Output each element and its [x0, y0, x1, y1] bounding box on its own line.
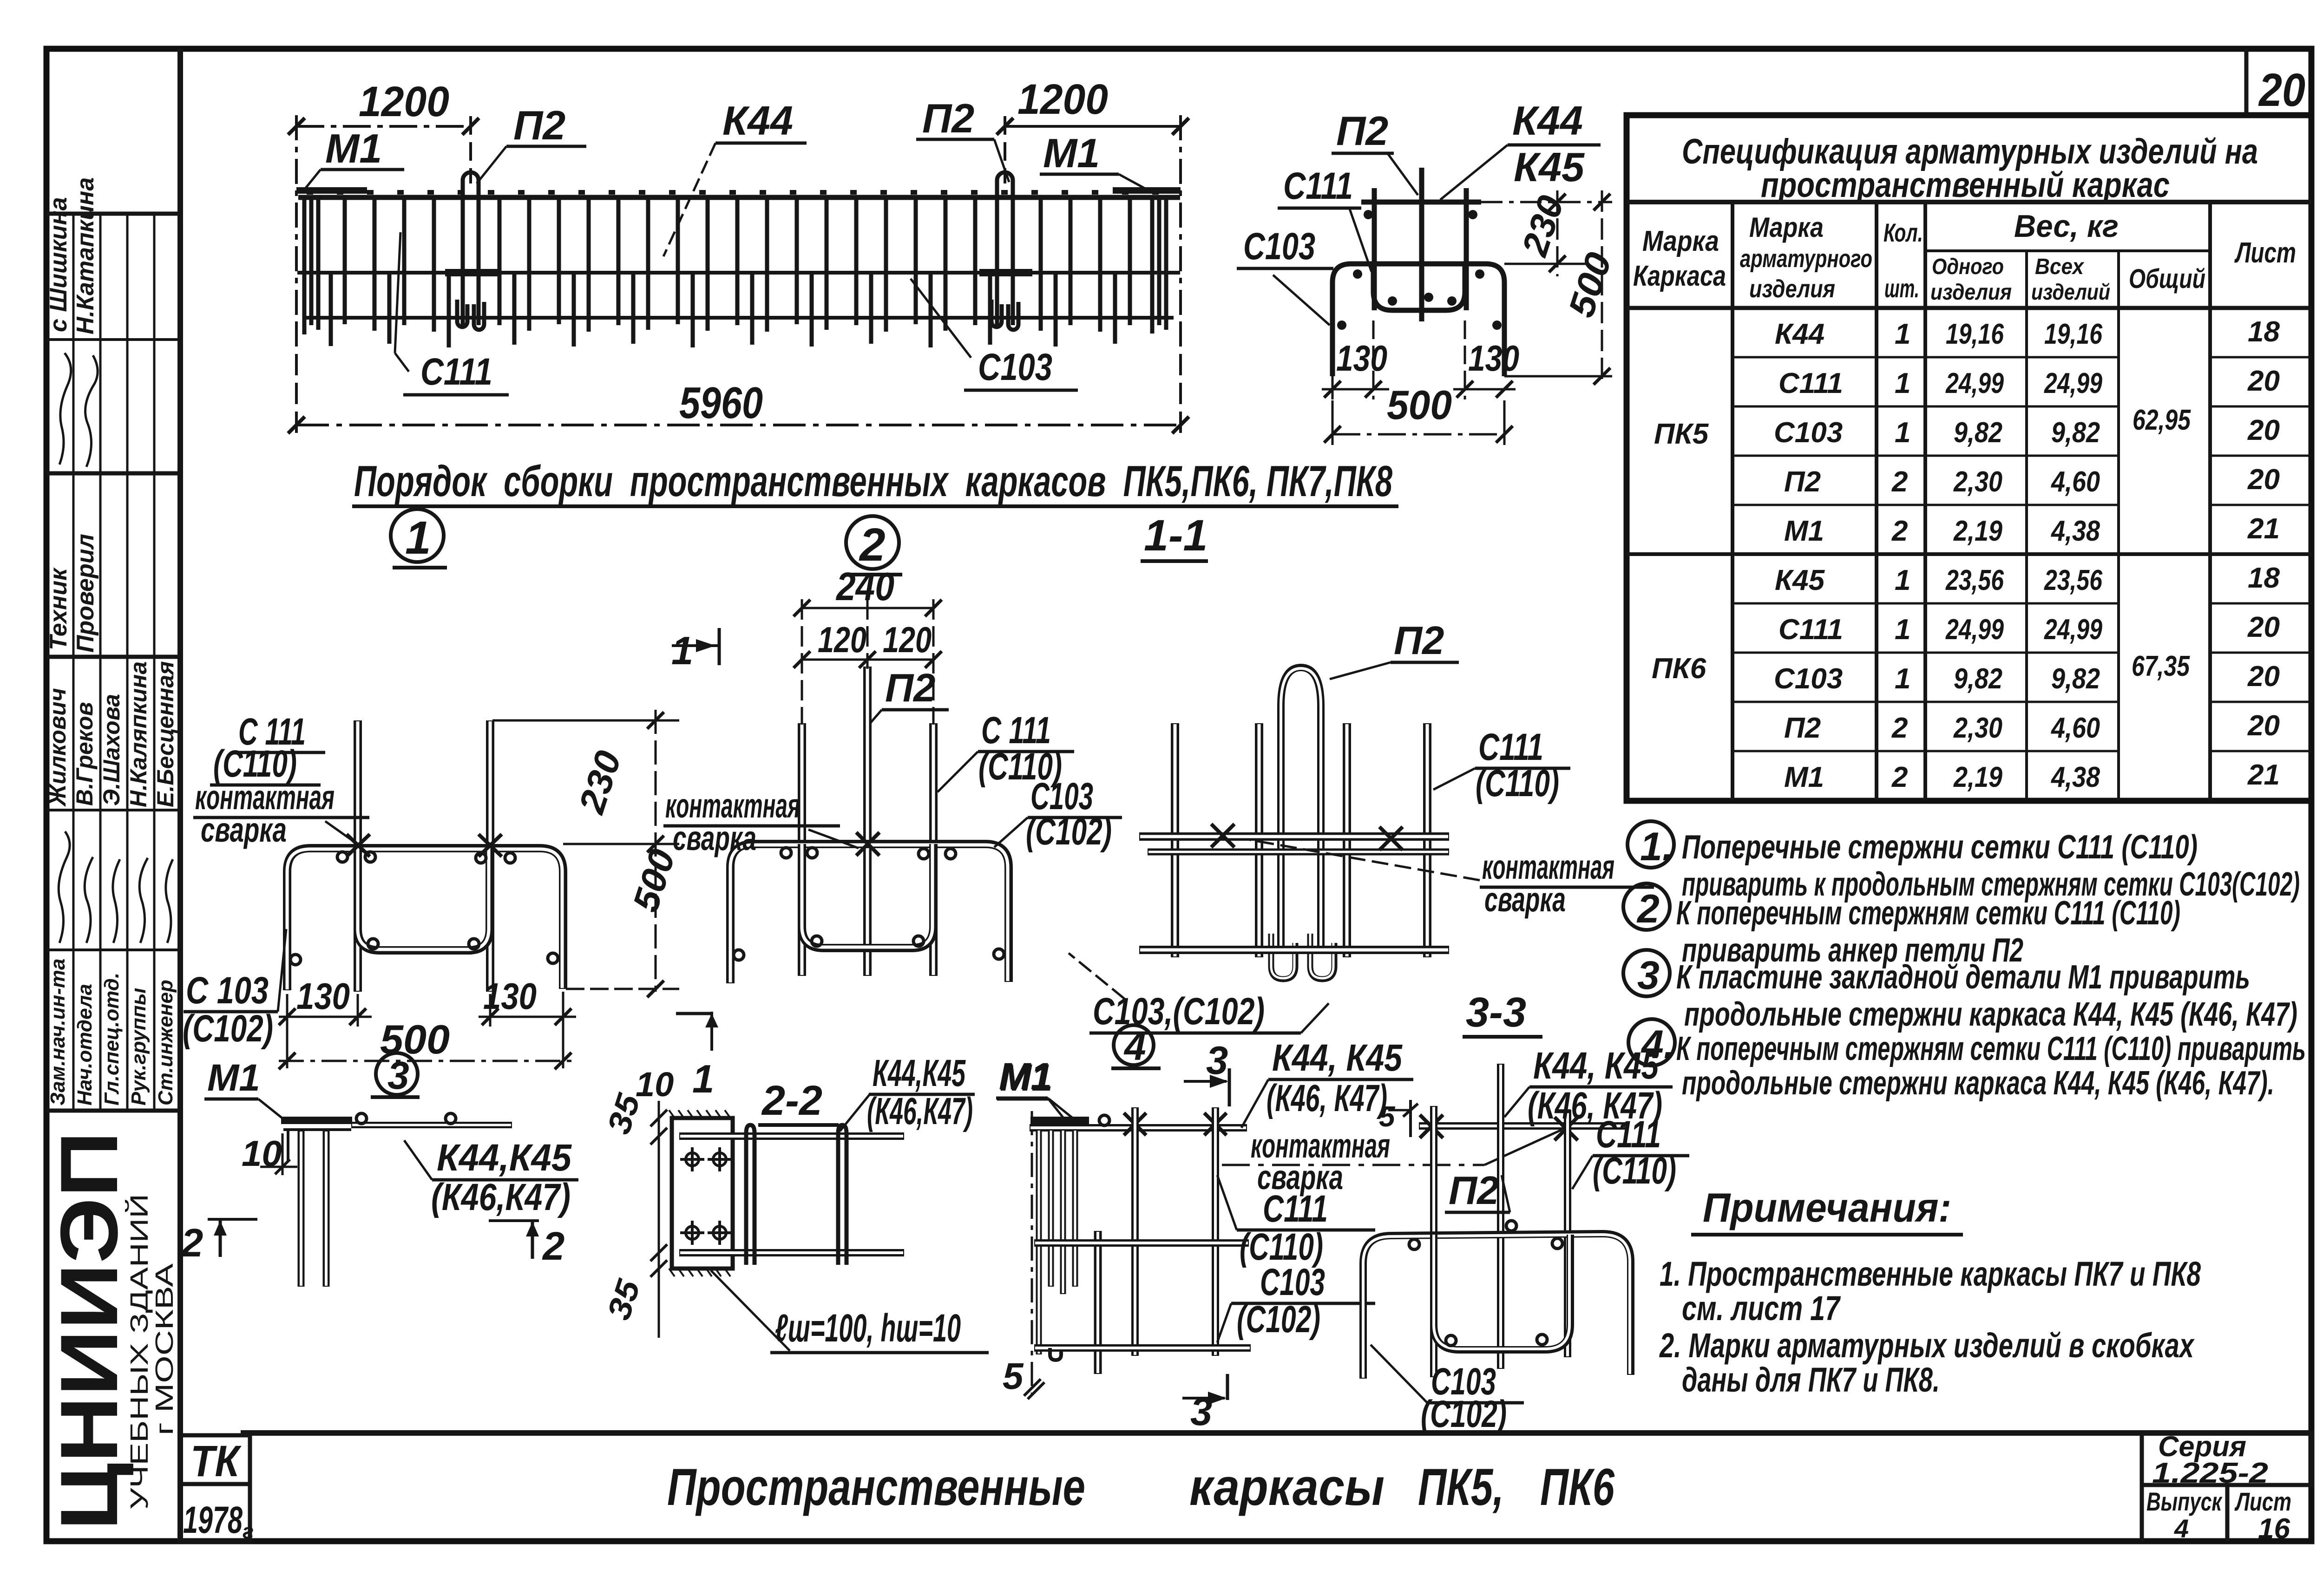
svg-text:19,16: 19,16: [2044, 318, 2102, 350]
svg-text:К45: К45: [1775, 564, 1825, 596]
beam dim 1200 right: [997, 76, 1189, 325]
svg-text:К44,К45: К44,К45: [437, 1137, 572, 1179]
svg-text:ТК: ТК: [190, 1437, 242, 1486]
svg-text:19,16: 19,16: [1946, 318, 2004, 350]
step1: weld X marks: [347, 834, 502, 857]
left strip signatures row 2: [59, 831, 173, 943]
svg-text:П2: П2: [885, 666, 935, 710]
view3: long vertical bars: [1135, 1107, 1215, 1356]
step2: label C103 (C102): [994, 775, 1122, 853]
beam label K44: [663, 98, 807, 256]
svg-text:К поперечным стержням сетки: К поперечным стержням сетки С111 (С110) …: [1676, 1030, 2306, 1067]
m1 detail: label M1: [204, 1057, 286, 1121]
beam label C111: [395, 232, 509, 395]
svg-text:Жилкович: Жилкович: [45, 688, 71, 807]
svg-text:ℓш=100, hш=10: ℓш=100, hш=10: [775, 1306, 961, 1350]
svg-text:Н.Каляпкина: Н.Каляпкина: [125, 661, 151, 807]
svg-text:С103: С103: [1243, 225, 1315, 268]
svg-text:М1: М1: [1043, 130, 1100, 176]
svg-text:(К46,К47): (К46,К47): [867, 1090, 973, 1132]
step2: side C111 bars + P2 rod: [802, 667, 933, 976]
svg-text:2: 2: [542, 1224, 564, 1269]
svg-text:ЦНИИЭП: ЦНИИЭП: [44, 1131, 135, 1531]
svg-text:1-1: 1-1: [1144, 511, 1207, 560]
svg-text:Марка: Марка: [1642, 225, 1719, 257]
svg-text:Примечания:: Примечания:: [1703, 1184, 1951, 1230]
svg-text:20: 20: [2258, 64, 2305, 116]
2-2 label K44,K45 (K46,K47): [840, 1052, 975, 1132]
svg-text:К44,К45: К44,К45: [873, 1052, 966, 1094]
svg-text:130: 130: [1336, 338, 1387, 379]
svg-text:П2: П2: [1336, 108, 1388, 154]
view3: axis dash line: [1031, 1111, 1033, 1393]
3-3: C111 verticals: [1434, 1106, 1568, 1377]
svg-text:ПК6: ПК6: [1652, 653, 1706, 685]
svg-text:(С102): (С102): [1237, 1298, 1320, 1341]
svg-text:С111: С111: [1283, 165, 1353, 207]
svg-text:23,56: 23,56: [1945, 564, 2004, 596]
svg-text:20: 20: [2247, 661, 2280, 693]
svg-text:4,38: 4,38: [2050, 515, 2100, 547]
svg-text:(С102): (С102): [1026, 811, 1112, 853]
svg-text:120: 120: [883, 619, 932, 660]
svg-text:Зам.нач.ин-та: Зам.нач.ин-та: [46, 959, 69, 1105]
svg-text:ПК6: ПК6: [1540, 1458, 1615, 1516]
svg-text:130: 130: [296, 975, 350, 1017]
beam label C103: [911, 279, 1078, 390]
view3: top plate + bar: [1030, 1115, 1247, 1128]
m1 detail: label K44,K45 (K46,K47): [404, 1137, 578, 1218]
svg-text:Рук.группы: Рук.группы: [127, 988, 150, 1105]
beam vertical bars C111 mesh: [304, 195, 1166, 334]
step4: horizontal bars: [1139, 837, 1449, 950]
step1: C103 mesh outer: [287, 848, 563, 990]
svg-text:продольные стержни каркаса: продольные стержни каркаса К44, К45 (К46…: [1684, 996, 2297, 1033]
svg-text:3: 3: [387, 1053, 409, 1097]
svg-text:2. Марки арматурных изделий: 2. Марки арматурных изделий в скобках: [1659, 1326, 2195, 1365]
svg-text:С111: С111: [420, 351, 492, 393]
svg-text:16: 16: [2258, 1513, 2290, 1545]
step4: label P2: [1330, 619, 1459, 679]
beam dim 5960: [288, 325, 1189, 437]
svg-text:С103: С103: [1774, 663, 1843, 695]
2-2: plate: [669, 1110, 733, 1276]
svg-text:Общий: Общий: [2129, 264, 2205, 294]
svg-text:Лист: Лист: [2234, 1487, 2291, 1516]
svg-text:(К46, К47): (К46, К47): [1266, 1077, 1387, 1119]
svg-text:4.: 4.: [1641, 1022, 1675, 1067]
svg-text:М1: М1: [325, 125, 382, 171]
step1: wire dots: [290, 852, 558, 965]
svg-text:20: 20: [2247, 611, 2280, 643]
svg-text:сварка: сварка: [1484, 880, 1566, 919]
svg-text:1.225-2: 1.225-2: [2152, 1457, 2268, 1489]
view3: section marker 3 bottom: [1182, 1374, 1227, 1434]
svg-text:(С110): (С110): [1593, 1150, 1676, 1192]
svg-text:1200: 1200: [359, 78, 449, 125]
step2: C103 inner tub: [802, 844, 933, 948]
beam label M1 left: [303, 125, 404, 191]
section marker 1 (bottom): [676, 1012, 718, 1101]
left title block strip: [46, 49, 180, 1541]
svg-text:П2: П2: [1784, 712, 1821, 744]
1-1: C103 tub: [1332, 264, 1504, 376]
svg-text:Э.Шахова: Э.Шахова: [98, 694, 125, 806]
svg-text:С103: С103: [978, 346, 1052, 388]
1-1: P2 rod: [1419, 168, 1424, 321]
beam M1 end plates: [296, 187, 1181, 194]
2-2 header: [758, 1078, 839, 1125]
svg-text:Поперечные стержни сетки С1: Поперечные стержни сетки С111 (С110): [1682, 829, 2198, 866]
view3: mid and bottom horizontals: [1034, 1243, 1251, 1360]
svg-text:С103: С103: [1774, 417, 1843, 449]
svg-text:С103: С103: [1260, 1261, 1325, 1303]
svg-text:ПК5: ПК5: [1654, 418, 1709, 450]
svg-text:ПК5,: ПК5,: [1418, 1458, 1504, 1516]
beam label M1 right: [1040, 130, 1150, 191]
svg-text:1: 1: [1895, 614, 1910, 646]
svg-text:4: 4: [2174, 1514, 2189, 1543]
svg-text:К44: К44: [1775, 318, 1824, 350]
svg-text:2: 2: [1891, 466, 1908, 498]
1-1: dim 500 bottom: [1324, 382, 1513, 445]
svg-text:18: 18: [2248, 562, 2280, 594]
beam P2 loop right: [979, 172, 1032, 330]
svg-text:1200: 1200: [1017, 76, 1108, 123]
TK / 1978 box: [180, 1435, 254, 1543]
step4: vertical C111 bars: [1175, 723, 1427, 957]
svg-text:шт.: шт.: [1884, 274, 1919, 303]
3-3: label K44,K45 (K46,K47) top right: [1504, 1045, 1673, 1127]
svg-text:П2: П2: [1784, 466, 1821, 498]
section marker 1 (top): [671, 628, 719, 673]
svg-text:К44: К44: [722, 98, 793, 144]
header 1-1: [1141, 511, 1208, 561]
beam lower mesh C103 short bars: [331, 274, 1115, 347]
svg-text:2: 2: [1891, 515, 1908, 547]
step2: label P2: [870, 666, 949, 724]
label K44,K45 (K46,K47) for view3: [1241, 1037, 1413, 1128]
beam label P2 right: [916, 95, 1009, 182]
svg-text:21: 21: [2247, 759, 2280, 791]
step1: bottom dims 130 130 500: [279, 975, 576, 1069]
step4: P2 hairpin: [1271, 667, 1334, 979]
svg-text:20: 20: [2247, 414, 2280, 446]
svg-text:К44, К45: К44, К45: [1533, 1045, 1659, 1087]
svg-text:сварка: сварка: [201, 811, 287, 849]
svg-text:К45: К45: [1514, 144, 1585, 190]
left strip signatures (second section): [59, 353, 98, 467]
1-1: dims 130 130: [1322, 321, 1519, 399]
svg-text:К44, К45: К44, К45: [1272, 1037, 1403, 1079]
m1 detail: section marks 2: [180, 1218, 564, 1269]
step4: label C111 (C110): [1433, 726, 1570, 805]
1-1: dim 230: [1481, 190, 1612, 276]
svg-text:4,60: 4,60: [2050, 712, 2100, 744]
svg-text:Кол.: Кол.: [1883, 218, 1923, 247]
svg-text:(С102): (С102): [1421, 1393, 1507, 1435]
svg-text:П2: П2: [513, 102, 565, 148]
svg-text:Всех: Всех: [2035, 255, 2085, 279]
svg-text:24,99: 24,99: [2044, 367, 2102, 399]
svg-text:продольные стержни каркаса: продольные стержни каркаса К44, К45 (К46…: [1682, 1065, 2274, 1102]
series / sheet boxes: [2142, 1431, 2311, 1545]
svg-text:сварка: сварка: [673, 819, 756, 857]
svg-text:9,82: 9,82: [2051, 417, 2100, 449]
3-3: label P2: [1445, 1169, 1510, 1213]
svg-text:4,60: 4,60: [2050, 466, 2100, 498]
view3: weld X on top bar: [1124, 1113, 1227, 1135]
svg-text:24,99: 24,99: [1945, 367, 2004, 399]
svg-text:2,19: 2,19: [1953, 761, 2002, 793]
svg-text:Гл.спец.отд.: Гл.спец.отд.: [100, 973, 123, 1105]
svg-text:П2: П2: [922, 95, 974, 141]
svg-text:М1: М1: [207, 1057, 260, 1099]
circled 2: [846, 516, 902, 575]
svg-text:3-3: 3-3: [1466, 989, 1526, 1036]
svg-text:2: 2: [1891, 761, 1908, 793]
svg-text:500: 500: [1387, 382, 1452, 428]
circled 3 caption: [371, 1053, 420, 1097]
svg-text:(С102): (С102): [183, 1007, 273, 1050]
column lines: [1731, 202, 1734, 801]
2-2: vertical stubs: [746, 1125, 847, 1265]
svg-text:С111: С111: [1263, 1188, 1328, 1230]
svg-text:2: 2: [1636, 887, 1660, 931]
beam dim 1200 left: [288, 78, 479, 325]
svg-text:9,82: 9,82: [2051, 663, 2100, 695]
svg-text:(К46,К47): (К46,К47): [431, 1176, 571, 1218]
step1: C111 cross bars: [358, 720, 490, 992]
svg-text:1: 1: [671, 629, 693, 673]
step4: label kontaktnaya svarka (right): [1250, 840, 1654, 919]
1-1: label C103: [1237, 225, 1333, 325]
bottom title strip: [241, 1433, 2311, 1516]
svg-text:5960: 5960: [679, 378, 763, 428]
svg-text:1: 1: [1895, 367, 1910, 399]
header band: [1627, 200, 2311, 204]
1-1: dim 500 right: [1504, 190, 1619, 386]
1-1: C111 top bar: [1361, 188, 1481, 310]
svg-text:24,99: 24,99: [2044, 614, 2102, 646]
2-2: label lw=100 hw=10: [711, 1270, 989, 1353]
svg-text:Порядок сборки пространствен: Порядок сборки пространственных каркасов…: [354, 457, 1393, 505]
1-1: label C111: [1278, 165, 1371, 272]
svg-text:2-2: 2-2: [761, 1078, 822, 1124]
svg-text:2,19: 2,19: [1953, 515, 2002, 547]
3-3: label C103 (C102) bottom: [1371, 1345, 1524, 1435]
page number 20 box: [2246, 49, 2311, 116]
svg-text:изделий: изделий: [2031, 280, 2110, 305]
svg-text:2: 2: [180, 1221, 203, 1265]
view3: dim 5 bottom left: [1003, 1355, 1044, 1399]
table row lines: [1627, 357, 2311, 751]
CNIIEP logo block: [44, 1131, 178, 1531]
step1: label C103 (C102): [183, 929, 286, 1050]
svg-text:3: 3: [1637, 953, 1660, 998]
3-3: dots: [1409, 1221, 1562, 1346]
svg-text:П2: П2: [1449, 1169, 1499, 1213]
svg-text:24,99: 24,99: [1945, 614, 2004, 646]
svg-text:Лист: Лист: [2234, 237, 2296, 269]
step1: right dims 230 / 500: [492, 710, 683, 997]
step2: label kontaktnaya svarka: [663, 786, 859, 857]
svg-text:Одного: Одного: [1932, 255, 2004, 279]
2-2 label M1: [997, 1057, 1073, 1119]
svg-text:1.: 1.: [1640, 824, 1673, 869]
svg-text:даны для ПК7 и ПК8.: даны для ПК7 и ПК8.: [1682, 1361, 1940, 1399]
svg-text:г МОСКВА: г МОСКВА: [151, 1263, 178, 1435]
svg-text:Выпуск: Выпуск: [2146, 1487, 2223, 1516]
label stack kontaktnaya svarka / C111 / C103 between view3 and 3-3: [1217, 1126, 1562, 1342]
beam top chord K44: [297, 192, 1180, 318]
2-2: horizontal bars: [679, 1136, 904, 1253]
svg-text:1: 1: [1895, 318, 1910, 350]
svg-text:С103,(С102): С103,(С102): [1093, 990, 1265, 1033]
svg-text:2: 2: [859, 519, 886, 571]
svg-text:1: 1: [1895, 564, 1910, 596]
view3: vertical plate bar: [1094, 1231, 1102, 1374]
svg-text:Марка: Марка: [1749, 212, 1824, 243]
svg-text:Техник: Техник: [45, 567, 72, 650]
svg-text:2: 2: [1891, 712, 1908, 744]
table data: [1652, 316, 2280, 793]
left strip roles (Техник / Проверил): [45, 534, 99, 653]
view3: hanging bars: [1039, 1130, 1075, 1354]
step2: dim 240 / 120 120: [794, 565, 942, 725]
svg-text:Е.Бесценная: Е.Бесценная: [152, 661, 178, 807]
svg-text:М1: М1: [1784, 761, 1824, 793]
3-3: top bar K44: [1419, 1122, 1625, 1130]
svg-text:5: 5: [1003, 1355, 1024, 1397]
svg-text:1: 1: [1895, 417, 1910, 449]
3-3: weld X: [1420, 1115, 1578, 1140]
beam P2 loop left: [445, 172, 498, 330]
svg-text:120: 120: [818, 619, 866, 660]
svg-text:каркасы: каркасы: [1189, 1458, 1385, 1516]
step2: label C111 (C110): [938, 709, 1074, 792]
svg-text:Проверил: Проверил: [72, 534, 99, 653]
svg-text:130: 130: [483, 975, 537, 1017]
left strip rotated names (top section): [45, 177, 99, 334]
svg-text:С111: С111: [1778, 367, 1843, 399]
svg-text:М1: М1: [999, 1055, 1052, 1098]
step2: C103 mesh outer: [730, 844, 1009, 983]
svg-text:арматурного: арматурного: [1740, 245, 1872, 273]
svg-text:С111: С111: [1778, 614, 1843, 646]
svg-text:Каркаса: Каркаса: [1633, 260, 1726, 292]
svg-text:2,30: 2,30: [1953, 712, 2002, 744]
2-2: dims 10 / 35 / 35: [600, 1065, 674, 1338]
step4: weld X: [1211, 824, 1403, 850]
view3: M1 label: [996, 1055, 1064, 1119]
step1: C103 inner tub: [358, 848, 490, 950]
1-1: label P2: [1332, 108, 1418, 195]
svg-text:1: 1: [692, 1057, 714, 1101]
m1 detail: dim 10: [242, 1133, 297, 1175]
svg-text:Н.Катапкина: Н.Катапкина: [72, 177, 99, 334]
column dividers: [72, 214, 75, 1111]
svg-text:9,82: 9,82: [1954, 417, 2002, 449]
svg-text:(С110): (С110): [1476, 762, 1559, 805]
2-2: bolts: [680, 1147, 732, 1245]
svg-text:23,56: 23,56: [2044, 564, 2102, 596]
svg-text:10: 10: [636, 1065, 674, 1104]
svg-text:20: 20: [2247, 464, 2280, 496]
svg-text:К44: К44: [1512, 98, 1583, 144]
svg-text:г: г: [243, 1519, 254, 1543]
header 3-3: [1463, 989, 1542, 1037]
svg-text:4: 4: [1123, 1025, 1146, 1068]
m1 detail: plate and bars: [281, 1113, 512, 1287]
1-1: rebar dots: [1337, 210, 1502, 330]
svg-text:с Шишкина: с Шишкина: [45, 197, 72, 332]
left strip names row 2: [45, 661, 178, 807]
3-3: P2 rod: [1497, 1064, 1504, 1369]
svg-text:Ст.инженер: Ст.инженер: [154, 980, 177, 1105]
3-3: C103 big tub: [1363, 1234, 1631, 1379]
svg-text:240: 240: [835, 565, 894, 609]
svg-text:67,35: 67,35: [2132, 650, 2190, 682]
3-3: label C111 (C110) right: [1572, 1113, 1689, 1192]
svg-text:3: 3: [1206, 1039, 1228, 1083]
1-1: label K44/K45: [1440, 98, 1601, 200]
circled 1: [391, 509, 447, 568]
svg-text:9,82: 9,82: [1954, 663, 2002, 695]
step4: label C103,(C102) + circled 4: [1069, 953, 1329, 1068]
svg-text:1: 1: [1895, 663, 1910, 695]
beam label P2 left: [477, 102, 586, 183]
svg-text:УЧЕБНЫХ ЗДАНИЙ: УЧЕБНЫХ ЗДАНИЙ: [125, 1194, 153, 1510]
step1: label C111 (C110) kontakt svarka: [193, 711, 369, 849]
svg-text:1: 1: [405, 512, 431, 564]
svg-text:П2: П2: [1394, 619, 1444, 663]
view3: section marker 3 top: [1184, 1039, 1229, 1106]
svg-text:пространственный каркас: пространственный каркас: [1761, 165, 2170, 205]
svg-text:2,30: 2,30: [1953, 466, 2002, 498]
svg-text:18: 18: [2248, 316, 2280, 348]
svg-text:Пространственные: Пространственные: [667, 1458, 1085, 1516]
svg-text:К поперечным стержням сетки: К поперечным стержням сетки С111 (С110): [1676, 895, 2180, 932]
svg-text:изделия: изделия: [1749, 275, 1835, 303]
ves,kg sub header: [1925, 249, 2210, 252]
svg-text:К пластине закладной детали: К пластине закладной детали М1 приварить: [1676, 959, 2250, 996]
svg-text:20: 20: [2247, 365, 2280, 397]
step2: weld X: [856, 832, 879, 856]
step2: wire dots: [734, 848, 1004, 960]
svg-text:см. лист 17: см. лист 17: [1682, 1289, 1841, 1328]
svg-text:21: 21: [2247, 513, 2280, 545]
svg-text:Вес, кг: Вес, кг: [2014, 209, 2119, 244]
left strip departments: [46, 959, 177, 1105]
svg-text:20: 20: [2247, 710, 2280, 742]
svg-text:Нач.отдела: Нач.отдела: [73, 984, 96, 1105]
svg-text:В.Греков: В.Греков: [72, 702, 98, 806]
svg-text:С 103: С 103: [186, 969, 269, 1012]
svg-text:М1: М1: [1784, 515, 1824, 547]
svg-text:4,38: 4,38: [2050, 761, 2100, 793]
dim 15 small: [1379, 1100, 1418, 1137]
svg-text:130: 130: [1468, 338, 1519, 379]
svg-text:1. Пространственные каркасы: 1. Пространственные каркасы ПК7 и ПК8: [1660, 1255, 2201, 1293]
svg-text:62,95: 62,95: [2133, 404, 2191, 436]
svg-text:1978: 1978: [183, 1499, 243, 1541]
svg-text:изделия: изделия: [1930, 280, 2012, 305]
